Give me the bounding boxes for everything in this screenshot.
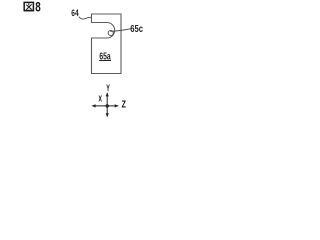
- Z axis horizontal double arrow: [95, 105, 116, 107]
- coordinate axes: [95, 95, 116, 115]
- svg-text:8: 8: [35, 0, 41, 15]
- svg-text:Z: Z: [122, 99, 126, 110]
- figure label 図8: [24, 2, 34, 10]
- arrowhead up: [106, 92, 109, 96]
- X axis dot: [106, 104, 109, 107]
- arrowhead right: [115, 104, 119, 107]
- svg-text:Y: Y: [106, 83, 110, 93]
- arrowhead down: [106, 113, 109, 117]
- arrowhead left: [91, 104, 95, 107]
- Y axis vertical double arrow: [106, 95, 108, 115]
- svg-text:64: 64: [71, 8, 78, 18]
- svg-text:65c: 65c: [130, 24, 143, 35]
- leader 65c with pigtail: [110, 29, 130, 32]
- part outline 65a body with slot: [92, 14, 122, 74]
- leader 64: [79, 17, 92, 19]
- svg-text:X: X: [98, 94, 102, 104]
